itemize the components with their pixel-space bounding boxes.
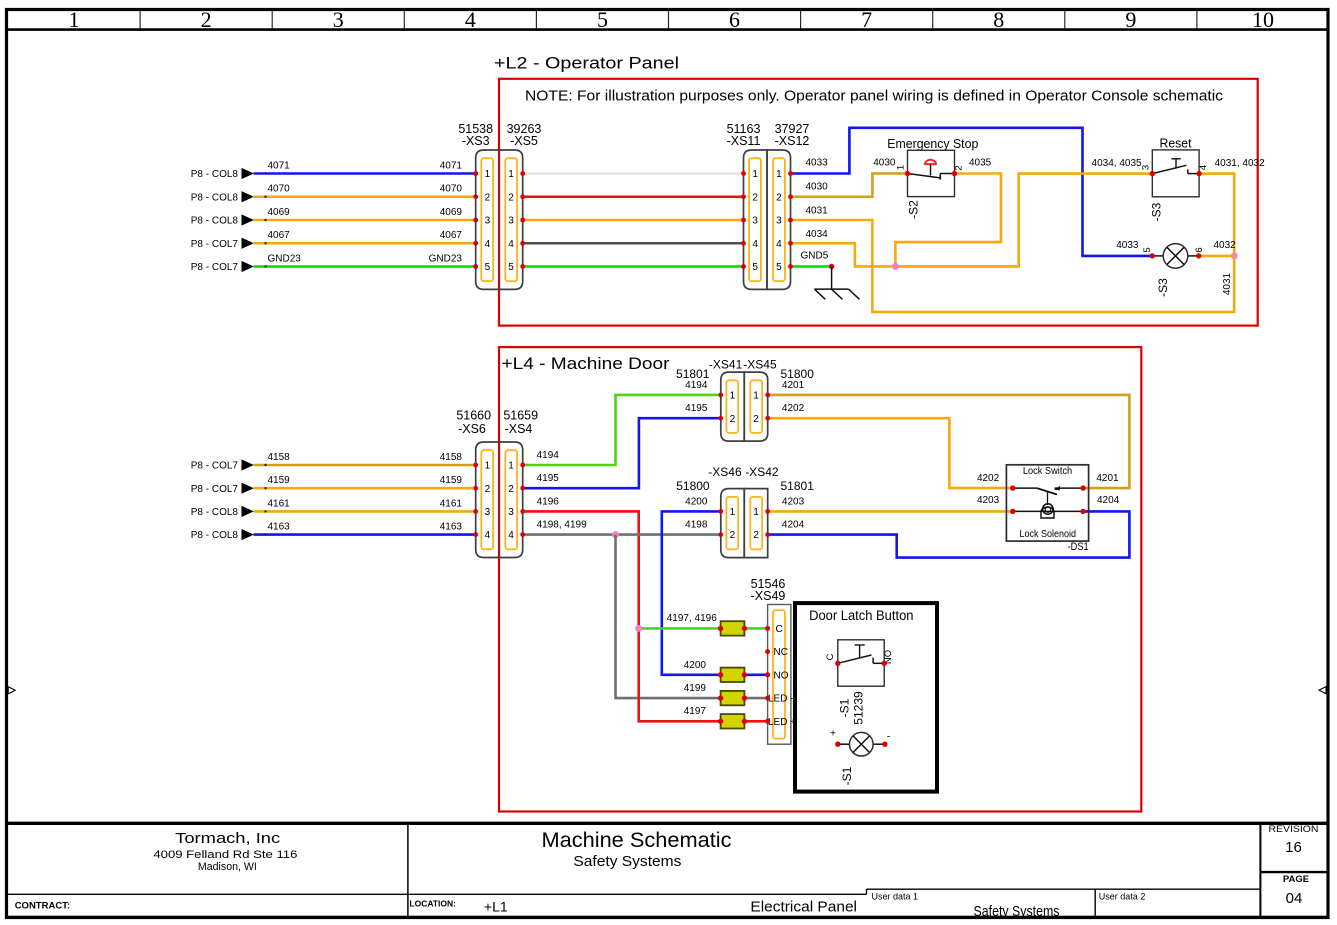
net GND23 feed wire from P8 - COL7 (191, 253, 476, 273)
svg-text:REVISION: REVISION (1269, 824, 1319, 835)
svg-text:6: 6 (729, 7, 740, 32)
svg-text:LED +: LED + (768, 717, 796, 728)
svg-text:GND23: GND23 (268, 253, 302, 264)
svg-text:-S3: -S3 (1156, 278, 1170, 297)
svg-text:NOTE: For illustration purpose: NOTE: For illustration purposes only. Op… (525, 88, 1224, 105)
connector -XS12 (37927) (767, 122, 809, 290)
+L4 Machine Door enclosure box (499, 347, 1141, 811)
svg-text:4198: 4198 (685, 520, 708, 531)
svg-text:NC: NC (774, 647, 788, 658)
wire -XS5 pin 5 to -XS11 pin 5 (523, 265, 744, 268)
svg-text:4204: 4204 (1097, 495, 1120, 506)
svg-text:1: 1 (485, 169, 491, 180)
net 4070 feed wire from P8 - COL8 (191, 184, 476, 204)
svg-text:4032: 4032 (1214, 240, 1237, 251)
svg-text:3: 3 (485, 507, 491, 518)
resistor on -XS49 C line (718, 621, 768, 635)
net 4034 wire -XS12 pin4 to reset switch -S3 pin3 (791, 158, 1153, 266)
svg-text:Madison, WI: Madison, WI (198, 861, 257, 873)
svg-text:Lock Switch: Lock Switch (1023, 466, 1072, 477)
svg-text:4: 4 (776, 239, 782, 250)
svg-text:1: 1 (730, 391, 736, 402)
resistor on -XS49 NO line (718, 668, 768, 682)
svg-text:4194: 4194 (537, 450, 560, 461)
door latch lamp -S1 (830, 729, 890, 786)
svg-text:-XS49: -XS49 (751, 589, 786, 603)
svg-text:5: 5 (776, 262, 782, 273)
svg-text:4161: 4161 (268, 498, 291, 509)
svg-text:2: 2 (753, 530, 759, 541)
svg-text:+L1: +L1 (484, 898, 508, 914)
svg-text:1: 1 (508, 169, 514, 180)
net 4031/4032 wire reset -S3 pin4 down to junction (1199, 158, 1265, 256)
junction net 4198/4199 (612, 531, 619, 538)
svg-text:6: 6 (1194, 247, 1205, 252)
svg-text:51659: 51659 (503, 408, 538, 422)
connector -XS49 (51546) (751, 577, 797, 744)
connector -XS3 (51538) (458, 122, 499, 290)
drawing title (542, 828, 732, 870)
svg-text:4202: 4202 (977, 473, 1000, 484)
net 4198/4199 wire -XS4 pin4 to -XS46 pin2 (523, 520, 721, 535)
svg-text:+: + (830, 729, 836, 740)
svg-text:2: 2 (485, 484, 491, 495)
svg-text:4161: 4161 (440, 498, 463, 509)
company name block (153, 830, 297, 873)
svg-text:4: 4 (508, 530, 514, 541)
title block (7, 823, 1330, 917)
connector -XS41 (51801) (676, 358, 744, 442)
svg-text:8: 8 (993, 7, 1004, 32)
svg-text:2: 2 (776, 192, 782, 203)
net 4032 wire lamp -S3 pin6 to junction (1199, 240, 1236, 256)
svg-text:4195: 4195 (537, 473, 560, 484)
svg-text:4034, 4035: 4034, 4035 (1092, 158, 1142, 169)
net 4204 wire -XS42 pin2 to lock solenoid (768, 495, 1130, 558)
svg-text:2: 2 (201, 7, 212, 32)
net 4163 feed wire from P8 - COL8 (191, 522, 476, 542)
svg-text:51800: 51800 (781, 367, 815, 381)
net 4030 wire -XS12 pin2 to -S2 pin1 (791, 158, 908, 197)
junction net 4034/4035 (892, 263, 899, 270)
connector -XS11 (51163) (727, 122, 767, 290)
svg-text:Machine Schematic: Machine Schematic (542, 828, 732, 852)
svg-text:1: 1 (508, 461, 514, 472)
net 4031 wire -XS12 pin3 to reset circuit (791, 205, 1235, 312)
wire -XS5 pin 2 to -XS11 pin 2 (523, 195, 744, 198)
svg-text:+L4 - Machine Door: +L4 - Machine Door (502, 355, 671, 373)
net 4197 wire junction down to -XS49 LED+ (639, 628, 721, 721)
column ruler (7, 7, 1330, 32)
svg-text:3: 3 (752, 216, 758, 227)
svg-text:4195: 4195 (685, 403, 708, 414)
svg-text:P8 - COL8: P8 - COL8 (191, 216, 239, 227)
resistor on -XS49 LED+ line (718, 714, 768, 728)
net 4201 wire -XS45 pin1 to lock switch (768, 380, 1130, 488)
net 4202 wire -XS45 pin2 to lock switch (768, 403, 1013, 488)
user data 1 label (872, 891, 1060, 920)
wire -XS5 pin 4 to -XS11 pin 4 (523, 242, 744, 245)
svg-text:4035: 4035 (969, 158, 992, 169)
svg-text:1: 1 (776, 169, 782, 180)
svg-text:4033: 4033 (806, 158, 829, 169)
net 4203 wire -XS42 pin1 to lock solenoid (768, 495, 1013, 511)
svg-text:4031: 4031 (806, 205, 829, 216)
svg-text:-: - (887, 732, 890, 743)
net 4159 feed wire from P8 - COL7 (191, 475, 476, 495)
connector -XS4 (51659) (499, 408, 538, 557)
svg-text:4200: 4200 (685, 496, 708, 507)
svg-text:C: C (825, 653, 836, 660)
+L4 enclosure border crossing -XS6/-XS4 (498, 442, 500, 558)
svg-text:4030: 4030 (873, 158, 896, 169)
svg-text:Lock Solenoid: Lock Solenoid (1020, 529, 1077, 540)
svg-text:4009 Felland Rd Ste 116: 4009 Felland Rd Ste 116 (153, 849, 297, 861)
svg-text:+L2 - Operator Panel: +L2 - Operator Panel (494, 55, 679, 73)
svg-text:-XS42: -XS42 (745, 465, 779, 479)
+L2 Operator Panel enclosure box (499, 79, 1258, 326)
svg-text:4: 4 (752, 239, 758, 250)
door latch switch -S1 (51239) (825, 640, 894, 725)
svg-text:PAGE: PAGE (1283, 874, 1309, 885)
svg-text:-S1: -S1 (838, 698, 852, 717)
wire -XS5 pin 3 to -XS11 pin 3 (523, 219, 744, 222)
svg-text:4033: 4033 (1116, 240, 1139, 251)
svg-text:4159: 4159 (268, 475, 291, 486)
svg-text:P8 - COL7: P8 - COL7 (191, 262, 239, 273)
net 4067 feed wire from P8 - COL7 (191, 230, 476, 250)
svg-text:C: C (776, 624, 783, 635)
net 4197/4196 wire junction to -XS49 C (639, 613, 721, 628)
svg-text:4069: 4069 (440, 207, 463, 218)
connector -XS6 (51660) (456, 408, 499, 557)
svg-text:4196: 4196 (537, 496, 560, 507)
net 4196 wire -XS4 pin3 down to junction (523, 496, 639, 628)
indicator lamp -S3 (1142, 244, 1205, 297)
svg-text:User data 2: User data 2 (1099, 891, 1146, 901)
svg-text:4197: 4197 (684, 706, 707, 717)
svg-text:-XS41: -XS41 (709, 358, 743, 372)
svg-text:Reset: Reset (1160, 137, 1193, 151)
svg-text:3: 3 (508, 216, 514, 227)
svg-text:User data 1: User data 1 (872, 891, 919, 901)
svg-text:3: 3 (485, 216, 491, 227)
svg-text:-S3: -S3 (1150, 202, 1164, 221)
svg-text:4158: 4158 (268, 452, 291, 463)
connector -XS5 (39263) (499, 122, 541, 290)
svg-text:5: 5 (752, 262, 758, 273)
svg-text:10: 10 (1252, 7, 1274, 32)
svg-text:Emergency Stop: Emergency Stop (887, 137, 978, 151)
svg-text:4031, 4032: 4031, 4032 (1215, 158, 1265, 169)
svg-text:3: 3 (333, 7, 344, 32)
net 4071 feed wire from P8 - COL8 (191, 160, 476, 180)
svg-text:4159: 4159 (440, 475, 463, 486)
svg-text:1: 1 (730, 507, 736, 518)
svg-text:4: 4 (465, 7, 476, 32)
svg-text:4070: 4070 (440, 184, 463, 195)
svg-text:NO: NO (774, 670, 789, 681)
left border reference arrow (8, 687, 15, 694)
svg-text:5: 5 (508, 262, 514, 273)
svg-text:2: 2 (508, 484, 514, 495)
svg-text:P8 - COL7: P8 - COL7 (191, 484, 239, 495)
net GND5 wire -XS12 pin5 (791, 251, 835, 269)
svg-text:3: 3 (1140, 165, 1151, 170)
svg-text:51239: 51239 (852, 691, 866, 725)
svg-text:4201: 4201 (782, 380, 805, 391)
svg-text:4067: 4067 (268, 230, 291, 241)
svg-text:1: 1 (69, 7, 80, 32)
svg-text:2: 2 (730, 530, 736, 541)
svg-text:4: 4 (1198, 165, 1209, 170)
svg-text:51801: 51801 (676, 367, 710, 381)
svg-text:5: 5 (485, 262, 491, 273)
svg-text:4194: 4194 (685, 380, 708, 391)
svg-text:4: 4 (508, 239, 514, 250)
svg-text:4163: 4163 (268, 522, 291, 533)
svg-text:4070: 4070 (268, 184, 291, 195)
net 4158 feed wire from P8 - COL7 (191, 452, 476, 472)
svg-text:7: 7 (861, 7, 872, 32)
svg-text:P8 - COL8: P8 - COL8 (191, 530, 239, 541)
svg-text:Safety Systems: Safety Systems (573, 853, 681, 870)
connector -XS42 (51801) (744, 465, 814, 558)
svg-text:LOCATION:: LOCATION: (409, 898, 456, 908)
svg-text:5: 5 (1142, 247, 1153, 252)
svg-text:-XS46: -XS46 (708, 465, 742, 479)
location label (409, 898, 507, 914)
net 4035 wire -S2 pin2 branch (895, 158, 1001, 267)
reset switch -S3 (1140, 137, 1209, 222)
wire -XS5 pin 1 to -XS11 pin 1 (523, 172, 744, 175)
svg-text:4200: 4200 (684, 660, 707, 671)
svg-text:2: 2 (954, 165, 965, 170)
chassis ground symbol (814, 267, 859, 300)
svg-text:P8 - COL7: P8 - COL7 (191, 239, 239, 250)
svg-text:51660: 51660 (456, 408, 491, 422)
page bottom border overlay (7, 916, 1330, 919)
svg-text:5: 5 (597, 7, 608, 32)
resistor on -XS49 LED- line (718, 691, 768, 705)
connector -XS45 (51800) (743, 358, 814, 442)
svg-text:-XS11: -XS11 (727, 134, 761, 148)
svg-text:P8 - COL8: P8 - COL8 (191, 192, 239, 203)
svg-text:GND23: GND23 (429, 253, 463, 264)
door latch button enclosure (795, 603, 937, 792)
svg-text:CONTRACT:: CONTRACT: (15, 901, 70, 912)
svg-text:51800: 51800 (676, 479, 710, 493)
svg-text:4: 4 (485, 239, 491, 250)
svg-text:4203: 4203 (977, 495, 1000, 506)
svg-text:4203: 4203 (782, 496, 805, 507)
net 4194 wire -XS4 pin1 to -XS41 pin1 (523, 380, 721, 465)
svg-text:04: 04 (1286, 890, 1303, 907)
svg-text:1: 1 (485, 461, 491, 472)
svg-text:-XS5: -XS5 (510, 134, 538, 148)
svg-text:-XS4: -XS4 (505, 422, 533, 436)
svg-text:-DS1: -DS1 (1068, 541, 1089, 553)
svg-text:4034: 4034 (806, 229, 829, 240)
svg-text:1: 1 (752, 169, 758, 180)
svg-text:-XS3: -XS3 (462, 134, 490, 148)
lock switch and solenoid -DS1 (1006, 465, 1088, 553)
connector -XS46 (51800) (676, 465, 744, 558)
svg-text:2: 2 (485, 192, 491, 203)
+L2 enclosure border crossing -XS3/-XS5 (498, 150, 500, 289)
svg-text:-XS12: -XS12 (775, 134, 810, 148)
svg-text:Door Latch Button: Door Latch Button (809, 608, 913, 623)
net 4069 feed wire from P8 - COL8 (191, 207, 476, 227)
svg-text:4199: 4199 (684, 683, 707, 694)
svg-text:4158: 4158 (440, 452, 463, 463)
svg-text:2: 2 (753, 414, 759, 425)
svg-text:51801: 51801 (781, 479, 815, 493)
svg-text:P8 - COL7: P8 - COL7 (191, 461, 239, 472)
right border reference arrow (1319, 687, 1326, 694)
svg-text:1: 1 (753, 391, 759, 402)
junction net 4197/4196 (635, 625, 642, 632)
net 4199 wire junction down to -XS49 LED- (616, 535, 721, 699)
svg-text:16: 16 (1285, 839, 1302, 856)
svg-text:4201: 4201 (1096, 473, 1119, 484)
svg-text:Electrical Panel: Electrical Panel (750, 898, 857, 915)
svg-text:-S1: -S1 (840, 766, 854, 785)
svg-text:1: 1 (753, 507, 759, 518)
svg-text:4198, 4199: 4198, 4199 (537, 520, 587, 531)
svg-text:3: 3 (508, 507, 514, 518)
svg-text:1: 1 (896, 165, 907, 170)
svg-text:GND5: GND5 (801, 251, 829, 262)
revision block (1269, 824, 1319, 907)
svg-text:2: 2 (508, 192, 514, 203)
svg-text:2: 2 (730, 414, 736, 425)
svg-text:3: 3 (776, 216, 782, 227)
svg-text:9: 9 (1125, 7, 1136, 32)
svg-text:4204: 4204 (782, 520, 805, 531)
net 4200 wire -XS46 pin1 to -XS49 NO (662, 496, 721, 674)
svg-text:4067: 4067 (440, 230, 463, 241)
svg-text:Tormach, Inc: Tormach, Inc (175, 830, 281, 847)
svg-text:4030: 4030 (806, 181, 829, 192)
svg-text:4197, 4196: 4197, 4196 (667, 613, 717, 624)
svg-text:P8 - COL8: P8 - COL8 (191, 507, 239, 518)
net 4195 wire -XS4 pin2 to -XS41 pin2 (523, 403, 721, 488)
svg-text:4071: 4071 (268, 160, 291, 171)
svg-text:4069: 4069 (268, 207, 291, 218)
net 4161 feed wire from P8 - COL8 (191, 498, 476, 518)
svg-text:4202: 4202 (782, 403, 805, 414)
svg-text:4071: 4071 (440, 160, 463, 171)
svg-text:-XS45: -XS45 (743, 358, 777, 372)
svg-text:P8 - COL8: P8 - COL8 (191, 169, 239, 180)
svg-text:4163: 4163 (440, 522, 463, 533)
svg-text:2: 2 (752, 192, 758, 203)
svg-text:4: 4 (485, 530, 491, 541)
emergency stop switch -S2 (887, 137, 978, 219)
net 4033 wire -XS12 pin1 to lamp -S3 pin5 (791, 128, 1153, 256)
svg-text:-S2: -S2 (907, 200, 921, 219)
svg-text:4031: 4031 (1222, 272, 1233, 295)
junction net 4031/4032 (1231, 252, 1238, 259)
svg-text:-XS6: -XS6 (458, 422, 486, 436)
svg-text:LED -: LED - (768, 694, 794, 705)
